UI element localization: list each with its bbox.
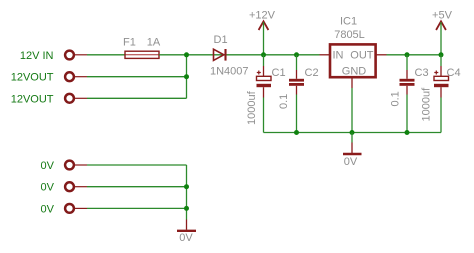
connector pin X2-1 0V bbox=[65, 161, 74, 170]
wire +12V arrow to node bbox=[263, 22, 265, 55]
op IC1 7805L box bbox=[330, 44, 376, 77]
svg-text:C2: C2 bbox=[305, 67, 319, 79]
pin stub X2-3 bbox=[75, 207, 88, 209]
pin stub X1-3 bbox=[75, 97, 88, 99]
supply +12V arrow bbox=[259, 21, 269, 30]
junction node +5V/C4 bbox=[439, 52, 444, 57]
capacitor C1 1000uf bbox=[257, 55, 272, 133]
pin stub X1-1 bbox=[75, 54, 88, 56]
svg-text:0V: 0V bbox=[344, 156, 358, 168]
svg-text:1000uf: 1000uf bbox=[246, 90, 258, 125]
svg-text:0.1: 0.1 bbox=[390, 91, 402, 106]
svg-text:IN: IN bbox=[333, 50, 344, 62]
svg-text:+5V: +5V bbox=[432, 10, 453, 22]
junction node C2 bottom bbox=[294, 130, 299, 135]
wire 0V row3 bbox=[87, 207, 187, 209]
wire vertical 0V bus bbox=[186, 165, 188, 220]
ground symbol GND2 0V bbox=[177, 220, 196, 231]
svg-text:1000uf: 1000uf bbox=[421, 87, 433, 122]
svg-text:D1: D1 bbox=[214, 34, 228, 46]
svg-text:0V: 0V bbox=[41, 182, 55, 194]
pin OUT stub bbox=[376, 54, 387, 56]
svg-text:12VOUT: 12VOUT bbox=[11, 72, 54, 84]
svg-text:12VOUT: 12VOUT bbox=[11, 93, 54, 105]
diode D1 bbox=[214, 49, 226, 61]
junction node row2/vertical bbox=[184, 74, 189, 79]
fuse F1 body bbox=[125, 54, 159, 56]
junction node 0V row2 bbox=[184, 184, 189, 189]
wire +5V arrow to node bbox=[440, 22, 442, 55]
wire fuse to diode bbox=[159, 54, 264, 56]
pin GND stub bbox=[351, 77, 353, 88]
svg-text:C1: C1 bbox=[272, 67, 286, 79]
supply +5V arrow bbox=[436, 21, 446, 30]
connector pin X2-2 0V bbox=[65, 182, 74, 191]
junction node row1/vertical bbox=[184, 52, 189, 57]
svg-text:0V: 0V bbox=[41, 160, 55, 172]
svg-text:C4: C4 bbox=[447, 67, 461, 79]
svg-text:1A: 1A bbox=[147, 36, 161, 48]
junction node GND bottom bbox=[350, 130, 355, 135]
junction node 0V row3 bbox=[184, 206, 189, 211]
svg-text:0V: 0V bbox=[179, 232, 193, 244]
svg-text:+12V: +12V bbox=[249, 10, 276, 22]
svg-text:0V: 0V bbox=[41, 203, 55, 215]
svg-text:IC1: IC1 bbox=[340, 16, 357, 28]
junction node C3 bottom bbox=[405, 130, 410, 135]
wire 12VOUT row2 to vertical bbox=[87, 76, 187, 78]
svg-text:7805L: 7805L bbox=[334, 29, 365, 41]
capacitor C3 0.1 bbox=[400, 55, 415, 133]
junction node C3 top bbox=[405, 52, 410, 57]
pin IN stub bbox=[320, 54, 331, 56]
svg-text:OUT: OUT bbox=[350, 50, 374, 62]
svg-text:F1: F1 bbox=[123, 37, 136, 49]
svg-text:GND: GND bbox=[342, 66, 367, 78]
wire vertical bus x=186.5 bbox=[186, 55, 188, 99]
wire GND pin to bottom bus bbox=[351, 88, 353, 133]
connector pin X1-3 12VOUT bbox=[65, 94, 74, 103]
junction node +12V/C1 bbox=[261, 52, 266, 57]
wire +12V node to IC IN bbox=[264, 54, 320, 56]
wire 0V row2 bbox=[87, 186, 187, 188]
wire bottom bus bbox=[264, 132, 442, 134]
pin stub X2-2 bbox=[75, 186, 88, 188]
capacitor C4 1000uf bbox=[434, 55, 449, 133]
wire 12V IN pin to fuse bbox=[87, 54, 125, 56]
wire 0V row1 bbox=[87, 164, 187, 166]
connector pin X1-2 12VOUT bbox=[65, 72, 74, 81]
svg-text:12V IN: 12V IN bbox=[20, 50, 54, 62]
wire IC OUT to +5V node bbox=[387, 54, 442, 56]
connector pin X1-1 12V IN bbox=[65, 51, 74, 60]
junction node C2 top bbox=[294, 52, 299, 57]
svg-text:1N4007: 1N4007 bbox=[210, 66, 249, 78]
pin stub X2-1 bbox=[75, 164, 88, 166]
ground symbol GND1 0V bbox=[343, 133, 362, 155]
connector pin X2-3 0V bbox=[65, 204, 74, 213]
pin stub X1-2 bbox=[75, 76, 88, 78]
wire 12VOUT row3 to vertical bbox=[87, 97, 187, 99]
svg-text:C3: C3 bbox=[415, 67, 429, 79]
svg-text:0.1: 0.1 bbox=[278, 94, 290, 109]
capacitor C2 0.1 bbox=[289, 55, 304, 133]
